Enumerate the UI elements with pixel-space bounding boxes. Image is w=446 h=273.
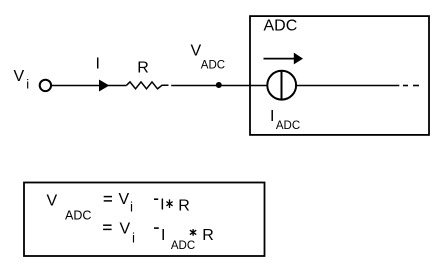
svg-text:R: R (202, 227, 214, 244)
svg-text:i: i (132, 231, 135, 246)
svg-text:R: R (137, 59, 149, 76)
svg-text:ADC: ADC (171, 240, 195, 252)
svg-text:I: I (270, 108, 274, 125)
svg-text:V: V (119, 191, 130, 208)
svg-text:I: I (161, 227, 165, 244)
svg-text:I: I (160, 197, 164, 214)
svg-text:R: R (178, 198, 190, 215)
svg-text:V: V (191, 42, 202, 59)
svg-text:V: V (14, 68, 25, 85)
svg-text:V: V (47, 192, 58, 209)
svg-text:V: V (120, 221, 131, 238)
svg-text:ADC: ADC (276, 120, 300, 132)
svg-text:i: i (26, 77, 29, 92)
svg-text:ADC: ADC (65, 209, 91, 223)
svg-text:ADC: ADC (201, 60, 225, 72)
svg-text:i: i (130, 200, 133, 215)
svg-text:I: I (96, 56, 100, 73)
svg-text:ADC: ADC (264, 17, 298, 34)
